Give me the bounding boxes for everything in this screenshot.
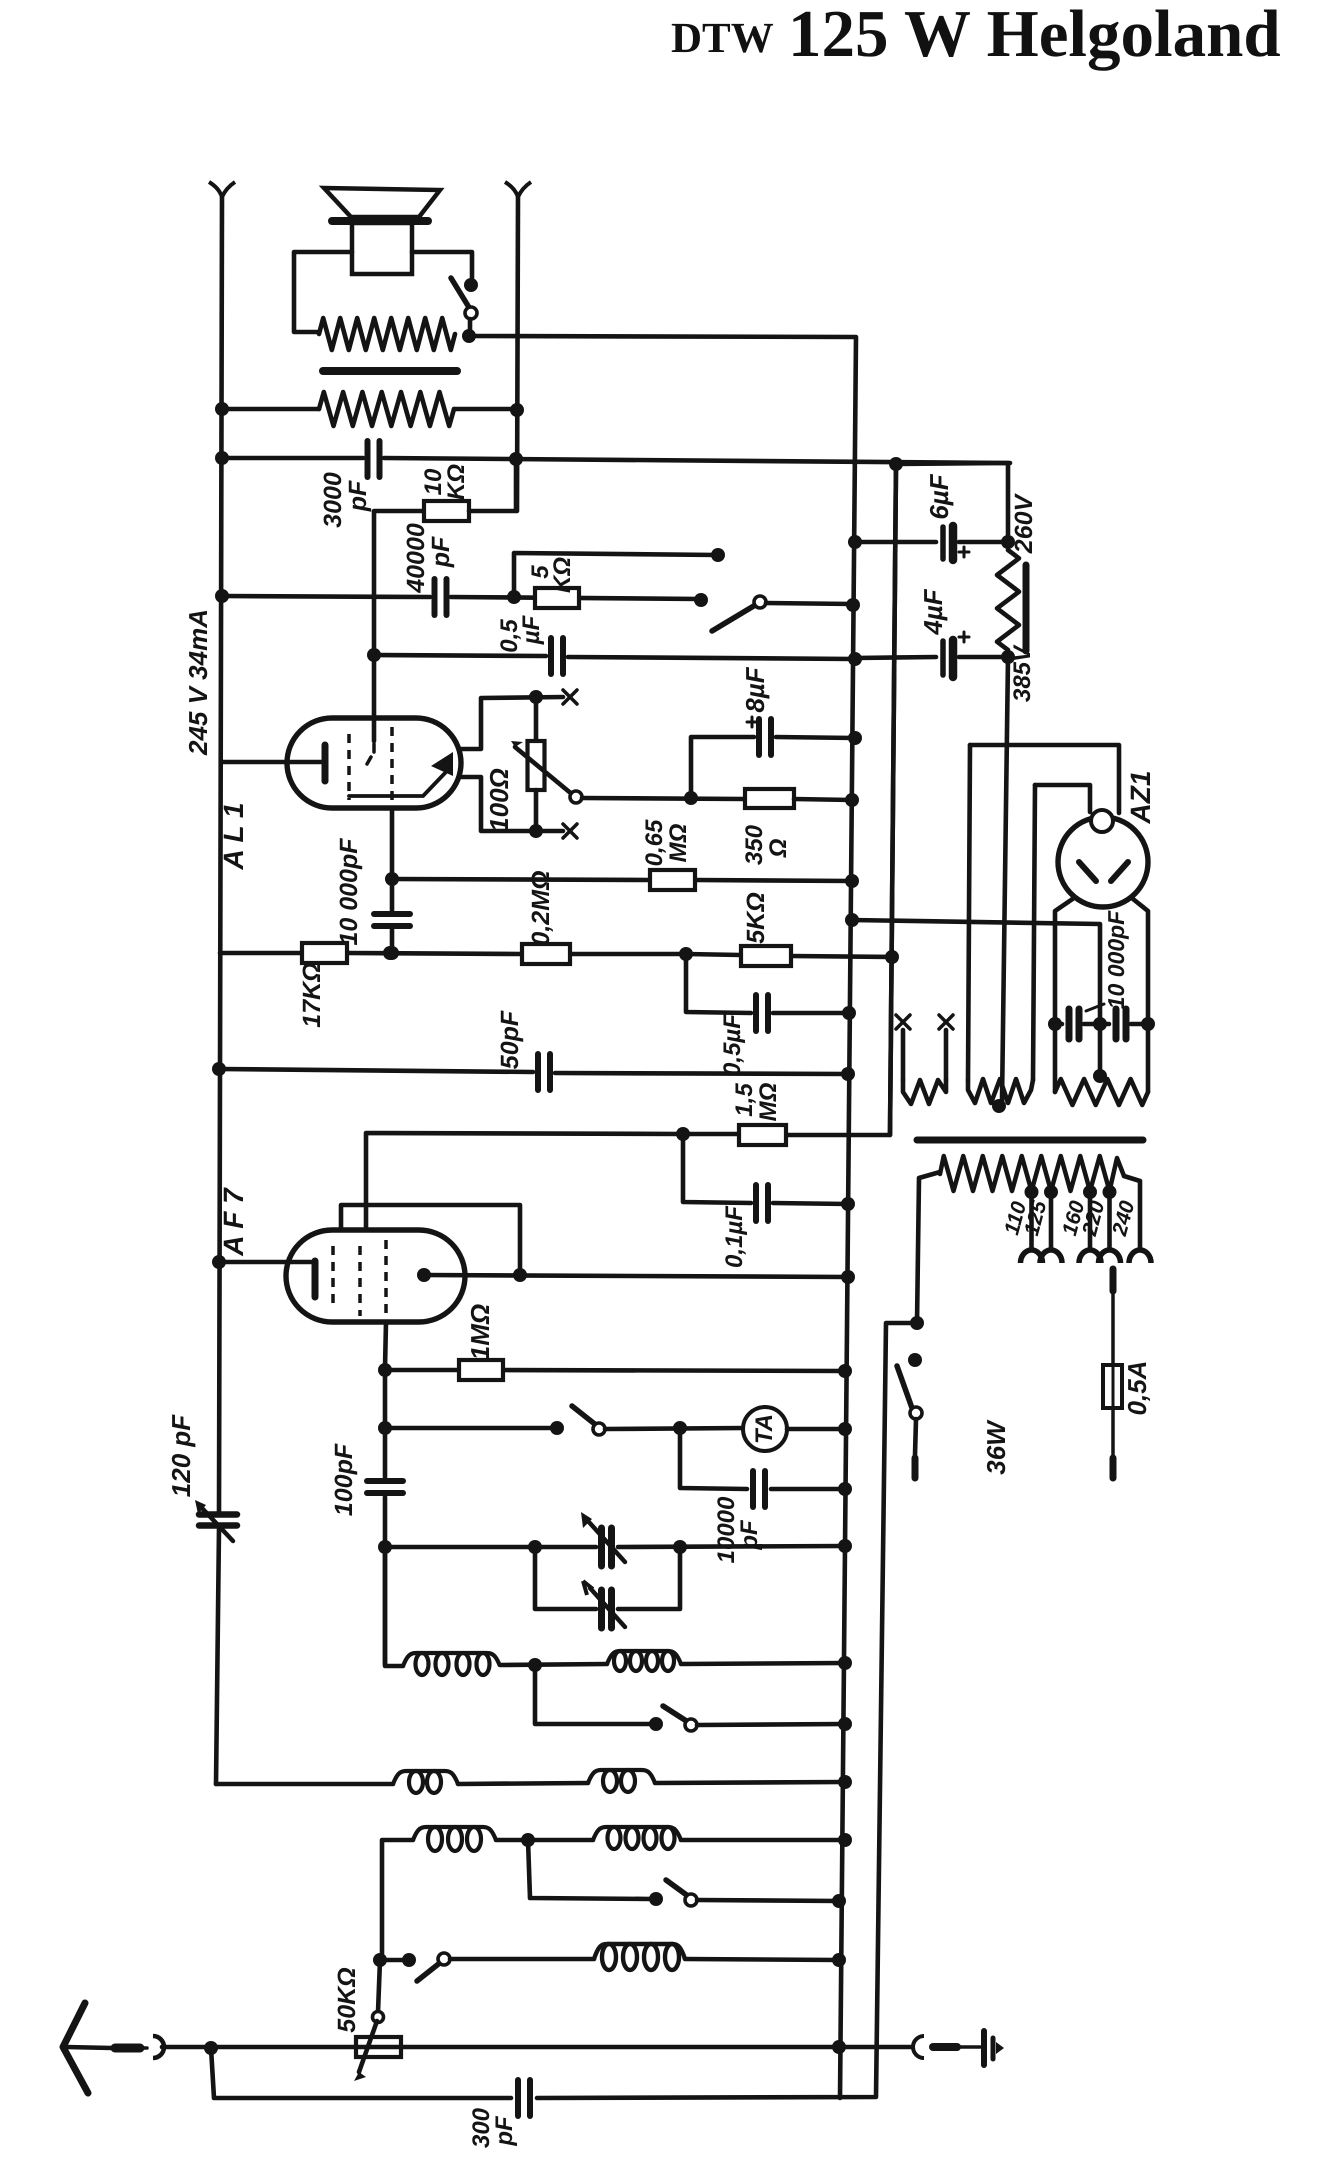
node: R1 right junction bbox=[462, 329, 476, 343]
svg-text:6µF: 6µF bbox=[924, 473, 954, 519]
resistor R6 17KΩ box bbox=[302, 943, 347, 963]
node bbox=[1048, 1017, 1062, 1031]
wire: branch y1899 bbox=[528, 1840, 652, 1899]
node bbox=[845, 913, 859, 927]
wire: 1,5MΩ line bbox=[683, 1132, 739, 1137]
node bbox=[832, 1953, 846, 1967]
switch S2 pivot bbox=[754, 596, 766, 608]
wire: primary left lead bbox=[917, 1172, 940, 1323]
node bbox=[832, 1894, 846, 1908]
wire: second bus x890 bbox=[890, 464, 896, 1135]
node bbox=[841, 1270, 855, 1284]
wire: left speaker-terminal lead bbox=[219, 196, 222, 1512]
svg-text:AZ1: AZ1 bbox=[1125, 771, 1156, 825]
wire: 50pF line bbox=[219, 1069, 533, 1072]
capacitor C10 10000pF bbox=[750, 1471, 756, 1507]
tap 220 wire bbox=[1107, 1191, 1112, 1250]
wire: wiper riser bbox=[378, 1960, 380, 2012]
wire: 10K right lead bbox=[469, 461, 516, 511]
svg-text:0,65: 0,65 bbox=[641, 819, 668, 866]
svg-text:pF: pF bbox=[344, 480, 372, 512]
svg-text:120 pF: 120 pF bbox=[166, 1414, 196, 1497]
wire: TA line left bbox=[385, 1426, 554, 1431]
ground arrow bbox=[996, 2042, 1004, 2054]
wire: 300pF line bbox=[211, 2048, 511, 2098]
node bbox=[510, 403, 524, 417]
wire: AZ1 cathode right bbox=[1133, 899, 1148, 1092]
wire: AL1 grid lead into tube bbox=[372, 655, 377, 741]
mains pin 1 bbox=[912, 1458, 919, 1478]
node: end contact bbox=[694, 593, 708, 607]
node bbox=[838, 1364, 852, 1378]
node bbox=[383, 946, 397, 960]
X mark bbox=[939, 1015, 953, 1029]
tap 220 hook bbox=[1099, 1250, 1121, 1263]
node bbox=[838, 1717, 852, 1731]
node bbox=[848, 731, 862, 745]
resistor R7 0,2MΩ box bbox=[522, 944, 570, 964]
node bbox=[402, 1953, 416, 1967]
node bbox=[848, 652, 862, 666]
tap 110 hook bbox=[1021, 1250, 1043, 1263]
capacitor C15 10000pF bbox=[1066, 1009, 1073, 1039]
resistor R11 260V dropper zigzag bbox=[997, 550, 1019, 650]
svg-text:3000: 3000 bbox=[319, 472, 347, 528]
wire: to bus bbox=[697, 1724, 845, 1725]
wire: cathode lead from left rail bbox=[221, 760, 321, 765]
capacitor C7 50pF bbox=[535, 1054, 541, 1090]
wire: earth line right bbox=[839, 2045, 912, 2050]
tube AF7 envelope bbox=[286, 1230, 465, 1322]
wire: switch to pin bbox=[915, 1419, 916, 1455]
node bbox=[513, 1268, 527, 1282]
capacitor C16 10000pF bbox=[1113, 1009, 1120, 1039]
wire: 10K left lead + grid drop bbox=[374, 511, 424, 653]
svg-text:50KΩ: 50KΩ bbox=[333, 1967, 361, 2032]
AL1 anode triangle bbox=[431, 752, 453, 776]
wire: pivot to resistor end bbox=[468, 319, 473, 332]
potentiometer P1 100Ω box bbox=[534, 697, 539, 741]
node bbox=[509, 452, 523, 466]
wire: switch branch y1725 bbox=[535, 1665, 652, 1724]
node bbox=[507, 590, 521, 604]
svg-text:KΩ: KΩ bbox=[443, 464, 470, 500]
switch S1 lever (speaker) bbox=[451, 278, 470, 309]
svg-text:350: 350 bbox=[741, 824, 768, 865]
X mark top bbox=[563, 690, 577, 704]
wire: 1MΩ line bbox=[385, 1368, 459, 1373]
AL1 grid dashes bbox=[372, 744, 376, 752]
wire: voice coil left to hum-buck resistor bbox=[294, 252, 352, 332]
node bbox=[385, 872, 399, 886]
capacitor C11 120pF trimmer bbox=[199, 1511, 237, 1518]
winding W4 mains primary zigzag bbox=[940, 1156, 1124, 1191]
node bbox=[373, 1953, 387, 1967]
svg-text:0,5µF: 0,5µF bbox=[719, 1013, 746, 1076]
node bbox=[521, 1833, 535, 1847]
earth terminal arc bbox=[913, 2036, 924, 2058]
wire: TA line mid bbox=[605, 1428, 745, 1429]
mains transformer core bar bbox=[917, 1137, 1143, 1144]
svg-text:Ω: Ω bbox=[765, 838, 792, 858]
wire: 10000pF branch bbox=[680, 1428, 747, 1489]
switch S2 lever bbox=[712, 604, 757, 631]
node bbox=[378, 1363, 392, 1377]
switch S3 lever bbox=[572, 1406, 596, 1425]
wire: AL1 bottom stub to rail bbox=[459, 777, 563, 831]
wire: AZ1 cathode left bbox=[1055, 898, 1074, 1092]
resistor R8 5KΩ box bbox=[741, 946, 791, 966]
node bbox=[885, 950, 899, 964]
svg-text:0,2MΩ: 0,2MΩ bbox=[527, 870, 555, 945]
tube AL1 envelope bbox=[287, 718, 461, 808]
node bbox=[1044, 1185, 1058, 1199]
AF7 anode dot bbox=[417, 1268, 431, 1282]
resistor R1 (hum-bucking coil) zigzag bbox=[319, 318, 455, 350]
wire: 0,5µF branch 2 bbox=[686, 954, 751, 1013]
svg-text:245 V 34mA: 245 V 34mA bbox=[183, 609, 213, 756]
wire: antenna lead bbox=[66, 2047, 112, 2048]
wire: secondary left lead bbox=[222, 407, 319, 412]
tap 110 wire bbox=[1029, 1191, 1034, 1250]
node bbox=[367, 648, 381, 662]
node bbox=[676, 1127, 690, 1141]
AZ1 filament right bbox=[1111, 862, 1128, 881]
tap 160 wire bbox=[1088, 1191, 1093, 1250]
winding W1 (AL1 heater) zigzag bbox=[903, 1080, 946, 1104]
capacitor C8 0,1µF bbox=[753, 1185, 759, 1221]
wire: anode line y458 bbox=[222, 456, 363, 461]
node bbox=[1093, 1017, 1107, 1031]
coil L4 bbox=[588, 1770, 655, 1783]
wire: line y656 bbox=[374, 655, 546, 656]
wire: antenna lead 2 bbox=[140, 2046, 147, 2050]
P1 wiper pivot bbox=[570, 791, 582, 803]
wire: grid line y953 bbox=[220, 951, 302, 956]
node bbox=[1025, 1185, 1039, 1199]
wire: AF7 cathode lead bbox=[219, 1260, 311, 1265]
wire: W1 stubs bbox=[901, 1030, 906, 1080]
coil L3 bbox=[393, 1771, 458, 1784]
potentiometer P2 50KΩ box bbox=[356, 2037, 401, 2057]
P2 wiper arrow bbox=[359, 2021, 377, 2072]
wire: secondary right lead bbox=[454, 407, 517, 412]
AL1 anode plate line bbox=[349, 772, 446, 796]
svg-text:1,5: 1,5 bbox=[731, 1083, 758, 1117]
winding W3 (AZ1 heater) zigzag bbox=[1055, 1079, 1148, 1105]
resistor R3 5KΩ box bbox=[535, 588, 579, 608]
wire: coil line y1784 bbox=[216, 1782, 393, 1787]
node bbox=[832, 2040, 846, 2054]
switch S6 pivot bbox=[438, 1953, 450, 1965]
svg-text:TA: TA bbox=[751, 1414, 778, 1444]
P1 wiper arrow bbox=[515, 747, 573, 795]
svg-text:µF: µF bbox=[518, 614, 545, 645]
wire: AL1 top stub to rail bbox=[459, 697, 563, 749]
wire: to bus bbox=[697, 1900, 839, 1901]
wire: TA to bus bbox=[787, 1427, 845, 1432]
resistor R4 350Ω box bbox=[745, 789, 794, 808]
AL1 grid dashed 2 bbox=[390, 727, 394, 807]
node bbox=[838, 1775, 852, 1789]
node bbox=[550, 1421, 564, 1435]
wire: az1 heater top 1 bbox=[970, 745, 1119, 813]
coil L2 bbox=[607, 1651, 681, 1664]
node bbox=[910, 1316, 924, 1330]
svg-text:40000: 40000 bbox=[402, 523, 430, 594]
wire: rectified line bbox=[852, 920, 1100, 1073]
svg-text:10 000pF: 10 000pF bbox=[335, 838, 363, 946]
wire: AF7 grid line y1133 bbox=[366, 1133, 683, 1248]
wire: AL1 grid2 lead down bbox=[390, 808, 395, 911]
capacitor C5 10000pF bbox=[374, 911, 410, 917]
coil L5 bbox=[413, 1827, 496, 1840]
wire: line y596 bbox=[222, 596, 430, 597]
node bbox=[1001, 650, 1015, 664]
wire: y1960 stub bbox=[380, 1958, 406, 1963]
node bbox=[649, 1717, 663, 1731]
AF7 cathode bar bbox=[312, 1261, 319, 1297]
svg-text:385V: 385V bbox=[1009, 644, 1036, 702]
svg-text:50pF: 50pF bbox=[496, 1010, 524, 1069]
terminal fork left bbox=[209, 182, 235, 197]
node bbox=[838, 1482, 852, 1496]
node bbox=[842, 1006, 856, 1020]
svg-text:pF: pF bbox=[491, 2115, 518, 2147]
wire: primary right lead bbox=[1124, 1176, 1140, 1249]
tap 240 hook bbox=[1129, 1250, 1151, 1263]
svg-text:0,5A: 0,5A bbox=[1122, 1361, 1152, 1416]
svg-text:8µF: 8µF bbox=[740, 666, 770, 712]
svg-text:4µF: 4µF bbox=[918, 588, 948, 635]
wire: coil line y1665 bbox=[385, 1547, 403, 1666]
output transformer core bar bbox=[323, 367, 457, 375]
AL1 grid dashed 1 bbox=[347, 734, 351, 800]
terminal fork right bbox=[505, 182, 531, 197]
node bbox=[841, 1197, 855, 1211]
wire: tuning line y1547 bbox=[385, 1545, 596, 1550]
wire: cap row y1024 bbox=[1055, 1022, 1062, 1027]
coil L7 bbox=[594, 1944, 685, 1959]
wire: HT line y542 bbox=[855, 540, 936, 545]
AF7 grid dashed 3 bbox=[384, 1240, 388, 1320]
svg-text:pF: pF bbox=[427, 536, 455, 568]
loudspeaker LS cone bbox=[324, 188, 440, 217]
X mark bottom bbox=[563, 824, 577, 838]
node bbox=[908, 1353, 922, 1367]
svg-text:100Ω: 100Ω bbox=[484, 768, 514, 832]
node bbox=[1103, 1185, 1117, 1199]
mains switch lever bbox=[897, 1366, 912, 1408]
wire: right speaker-terminal lead bbox=[517, 196, 518, 511]
antenna plug pin bbox=[115, 2044, 140, 2053]
svg-text:1MΩ: 1MΩ bbox=[465, 1304, 495, 1360]
coil L1 bbox=[403, 1653, 500, 1666]
node bbox=[684, 791, 698, 805]
node bbox=[212, 1255, 226, 1269]
P2 wiper pivot bbox=[373, 2012, 384, 2023]
wire: CV2 loop bbox=[535, 1547, 596, 1609]
switch S4 pivot bbox=[685, 1719, 697, 1731]
node bbox=[841, 1067, 855, 1081]
switch S5 lever bbox=[666, 1880, 688, 1896]
resistor R2 10KΩ box bbox=[424, 501, 469, 521]
node: switch contact top bbox=[464, 278, 478, 292]
AF7 grid dashed 2 bbox=[358, 1246, 362, 1316]
node bbox=[378, 1421, 392, 1435]
switch S5 pivot bbox=[685, 1894, 697, 1906]
node bbox=[528, 1658, 542, 1672]
loudspeaker frame bar bbox=[332, 217, 428, 225]
plus mark bbox=[959, 636, 969, 639]
antenna socket arc bbox=[153, 2036, 164, 2058]
wire: antenna line y2047 bbox=[162, 2045, 839, 2050]
wire: fuse lead bbox=[1111, 1291, 1115, 1365]
capacitor C12 300pF bbox=[515, 2080, 521, 2116]
tap 125 hook bbox=[1040, 1250, 1062, 1263]
capacitor C6 0,5µF bbox=[753, 995, 759, 1031]
svg-text:125 W Helgoland: 125 W Helgoland bbox=[788, 0, 1281, 71]
node bbox=[673, 1421, 687, 1435]
wire: left rail lower bbox=[216, 1528, 219, 1784]
svg-text:MΩ: MΩ bbox=[665, 823, 692, 862]
wire: 8µF branch bbox=[691, 737, 754, 798]
wire: az1 heater top 2 bbox=[1035, 785, 1090, 812]
winding W2 (heater) zigzag bbox=[968, 1079, 1033, 1103]
svg-text:A F 7: A F 7 bbox=[218, 1187, 249, 1257]
voltage arrow bar bbox=[1023, 565, 1030, 651]
svg-text:100pF: 100pF bbox=[330, 1443, 358, 1516]
wire: y553 branch bbox=[514, 553, 718, 597]
node bbox=[212, 1062, 226, 1076]
capacitor C9 100pF bbox=[367, 1478, 403, 1484]
variable capacitor CV1 bbox=[598, 1528, 605, 1566]
antenna symbol chevron bbox=[63, 2003, 88, 2093]
wire: W2 stubs bbox=[968, 745, 970, 1080]
loudspeaker voice-coil box bbox=[352, 223, 412, 274]
wire: 0,1µF branch bbox=[683, 1134, 751, 1203]
svg-text:A L 1: A L 1 bbox=[218, 803, 249, 871]
node bbox=[215, 451, 229, 465]
node: W2 centre tap bbox=[992, 1099, 1006, 1113]
node bbox=[215, 589, 229, 603]
node bbox=[385, 946, 399, 960]
ground bar 1 bbox=[981, 2031, 987, 2065]
AF7 grid dashed 1 bbox=[331, 1246, 335, 1310]
pickup jack TA circle bbox=[743, 1407, 787, 1451]
switch S6 lever bbox=[417, 1962, 441, 1981]
wire: coil line y1840 bbox=[382, 1840, 413, 1960]
fuse F1 0,5A bbox=[1103, 1365, 1122, 1408]
wire: AF7 screen loop bbox=[341, 1205, 520, 1273]
wire: 385V line down bbox=[1002, 657, 1008, 1102]
node bbox=[1093, 1069, 1107, 1083]
ground bar 2 bbox=[991, 2038, 996, 2059]
capacitor C4 8µF bbox=[756, 719, 762, 755]
wire: wiper line to 350Ω bbox=[582, 798, 745, 799]
capacitor C13 6µF bbox=[940, 527, 946, 559]
capacitor C1 3000pF bbox=[365, 441, 371, 477]
node bbox=[889, 457, 903, 471]
wire: pivot to bus bbox=[766, 603, 853, 604]
AZ1 filament left bbox=[1079, 862, 1096, 881]
wire: corner x1010 bbox=[896, 463, 1008, 545]
node bbox=[838, 1656, 852, 1670]
node bbox=[215, 402, 229, 416]
node bbox=[673, 1540, 687, 1554]
svg-text:0,1µF: 0,1µF bbox=[721, 1205, 748, 1268]
wire: fuse lead 2 bbox=[1111, 1408, 1115, 1455]
node bbox=[1141, 1017, 1155, 1031]
node bbox=[838, 1539, 852, 1553]
svg-text:KΩ: KΩ bbox=[549, 557, 576, 593]
switch S1 pivot bbox=[465, 307, 477, 319]
node bbox=[845, 874, 859, 888]
node bbox=[846, 598, 860, 612]
svg-text:5KΩ: 5KΩ bbox=[742, 892, 770, 943]
plus mark bbox=[959, 551, 969, 554]
wire bbox=[957, 2045, 980, 2049]
node bbox=[649, 1892, 663, 1906]
wire: voice coil right to switch bbox=[412, 252, 472, 278]
svg-text:DTW: DTW bbox=[671, 15, 774, 62]
switch S3 pivot bbox=[593, 1423, 605, 1435]
wire: 0,65MΩ line bbox=[392, 879, 650, 880]
resistor R5 0,65MΩ box bbox=[650, 870, 695, 890]
node bbox=[204, 2041, 218, 2055]
earth plug pin bbox=[933, 2043, 957, 2051]
wire: speaker line to main HT bus bbox=[469, 336, 856, 2098]
wire: AF7 bottom exit bbox=[385, 1322, 386, 1368]
node bbox=[845, 793, 859, 807]
tap 160 hook bbox=[1079, 1250, 1101, 1263]
svg-text:260V: 260V bbox=[1010, 492, 1038, 554]
variable capacitor CV2 bbox=[598, 1590, 605, 1628]
mains switch pivot bbox=[910, 1407, 922, 1419]
node bbox=[679, 947, 693, 961]
svg-text:17KΩ: 17KΩ bbox=[298, 962, 326, 1027]
resistor R10 1MΩ box bbox=[459, 1360, 503, 1380]
wire: 5KΩ screen line bbox=[686, 954, 741, 955]
coil L6 bbox=[593, 1827, 681, 1840]
AZ1 pin circle bbox=[1091, 810, 1113, 832]
tap 125 wire bbox=[1049, 1191, 1054, 1250]
AL1 cathode bar bbox=[322, 745, 329, 781]
node bbox=[529, 690, 543, 704]
wire: y1960 to bus bbox=[450, 1957, 594, 1962]
wire: HT line y659 right bbox=[855, 657, 936, 658]
output transformer secondary zigzag bbox=[319, 392, 454, 426]
plus mark bbox=[747, 721, 757, 724]
tube AZ1 envelope bbox=[1058, 817, 1148, 907]
wire: x385 chain bbox=[383, 1370, 388, 1477]
wire: AF7 anode line bbox=[424, 1275, 848, 1277]
capacitor C2 40000pF bbox=[432, 579, 438, 615]
node bbox=[529, 824, 543, 838]
node bbox=[848, 535, 862, 549]
node bbox=[838, 1422, 852, 1436]
resistor R9 1,5MΩ box bbox=[739, 1125, 786, 1145]
node bbox=[838, 1833, 852, 1847]
mains pin 2 top bbox=[1110, 1269, 1117, 1291]
wire: 350Ω to bus bbox=[794, 799, 852, 800]
svg-text:36W: 36W bbox=[981, 1419, 1011, 1475]
svg-text:10 000pF: 10 000pF bbox=[1103, 910, 1129, 1009]
mains pin 2 bottom bbox=[1110, 1458, 1117, 1478]
capacitor C14 4µF bbox=[940, 641, 946, 675]
node bbox=[528, 1540, 542, 1554]
node bbox=[1001, 535, 1015, 549]
